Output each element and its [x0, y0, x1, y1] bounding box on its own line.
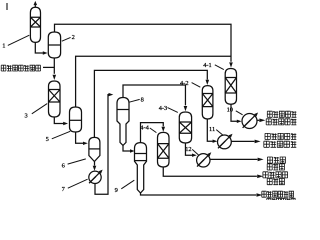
text: solvent tank [267, 164, 284, 170]
leader for label 12 [192, 149, 199, 155]
svg-text:12: 12 [185, 146, 191, 153]
leader for label 2 [62, 37, 71, 41]
svg-text:5: 5 [46, 136, 49, 143]
text: to secondary high pressure [267, 111, 296, 117]
reactor 4-4 [158, 132, 170, 167]
vent arrow from reactor 1 [34, 5, 36, 8]
wire separator 5 bottoms to separator 6 [76, 132, 85, 143]
outlet arrow to secondary LP separator [232, 140, 255, 142]
text: to recycle [267, 157, 285, 163]
leader for label 3 [32, 104, 47, 114]
wire reactor 4-1 bottoms to cooler 10 [231, 104, 239, 121]
wire reactor 4-3 bottoms to cooler 12 [185, 143, 193, 155]
leader for label 11 [216, 130, 223, 136]
svg-text:4-2: 4-2 [180, 80, 189, 87]
outlet arrow hydrogenated petroleum resin product [141, 193, 257, 195]
outlet arrow reactor 4-4 to oligomer separation tower [163, 167, 257, 176]
reactor 4-2 [202, 86, 213, 119]
wire reactor 4-2 bottoms to cooler 11 [207, 119, 214, 141]
stripper column 8 [117, 98, 129, 146]
leader for label 4-3 [168, 108, 178, 113]
reactor 3 [49, 81, 61, 117]
cooler 12 [197, 154, 210, 167]
wire separator 6 bottoms to heater 7 [94, 162, 96, 166]
svg-text:2: 2 [72, 34, 75, 41]
reactor 1 [30, 7, 40, 42]
svg-text:10: 10 [227, 107, 233, 114]
separator drum 6 [89, 137, 100, 161]
separator drum 5 [70, 107, 82, 132]
outlet arrow to recycle solvent tank [210, 158, 257, 160]
text: makeup solvent and hydrogen [1, 65, 40, 71]
svg-text:8: 8 [141, 96, 144, 103]
leader for label 6 [68, 159, 86, 164]
leader for label 4-4 [150, 128, 157, 133]
svg-text:9: 9 [115, 187, 118, 194]
text: separation tower [267, 179, 284, 185]
makeup solvent and hydrogen feed line [43, 66, 54, 68]
wire reactor 3 bottom to separator 5 [54, 117, 65, 124]
wire separator 2 bottoms to reactor 3 [53, 58, 55, 74]
svg-text:3: 3 [25, 112, 28, 119]
wire column 9 overhead to reactor 4-4 [141, 123, 164, 143]
wire reactor 1 bottom to separator 2 [35, 42, 45, 53]
outlet arrow to secondary HP separator [257, 119, 259, 121]
text: vapor-liquid separation tank (LP) [264, 141, 297, 147]
wire heater 7 outlet riser to column 8 [95, 95, 110, 195]
text: clipped second product line [267, 198, 295, 204]
leader for label 7 [68, 179, 88, 188]
reactor 4-3 [179, 112, 191, 143]
leader for label 4-1 [215, 65, 224, 70]
svg-text:4-4: 4-4 [140, 125, 149, 132]
svg-text:4-1: 4-1 [203, 62, 212, 69]
leader for label 8 [129, 99, 140, 102]
svg-text:1: 1 [2, 43, 5, 50]
cooler 10 [242, 114, 257, 129]
text: vapor-liquid separation tank (HP) [266, 119, 296, 125]
leader for label 5 [52, 131, 70, 139]
wire column 8 bottoms to column 9 [123, 145, 132, 151]
cooler 11 [218, 135, 232, 149]
text: hydrogenated petroleum resin [262, 191, 294, 197]
leader for label 1 [8, 35, 30, 45]
wire column 8 overhead to reactor 4-3 [123, 85, 185, 105]
wire separator 5 overhead recycle line [76, 56, 231, 107]
reactor 4-1 [225, 69, 236, 105]
leader for label 9 [121, 180, 134, 189]
leader for label 4-2 [192, 83, 201, 88]
wire separator 2 overhead to reactor 4-1 (top recycle line) [55, 24, 232, 62]
separator drum 2 [48, 32, 60, 58]
leader for label 10 [236, 111, 243, 115]
stripper column 9 [135, 143, 147, 193]
svg-text:11: 11 [209, 126, 215, 133]
heater 7 [89, 171, 101, 183]
text: to secondary low pressure [265, 133, 296, 139]
svg-text:6: 6 [62, 163, 65, 170]
wire separator 6 overhead to reactor 4-2 [94, 70, 207, 137]
stray tick mark [6, 3, 8, 10]
text: to oligomer [263, 172, 288, 178]
svg-text:4-3: 4-3 [159, 105, 168, 112]
